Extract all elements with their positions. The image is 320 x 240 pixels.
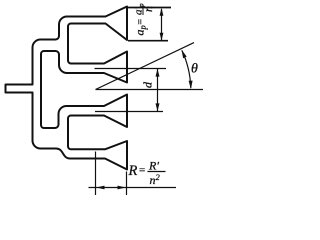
svg-text:=: = [139,165,145,177]
svg-text:n: n [141,6,155,12]
wire R dimension extension line left [95,152,97,196]
wire a_p dimension extension lines [128,7,171,9]
svg-text:θ: θ [191,62,198,77]
wire axis line of horn A3 [95,111,163,113]
node d label (rotated) [141,81,155,88]
wire d dimension arrow line [157,69,159,111]
wire array axis baseline for angle theta [96,89,204,91]
svg-text:ap=: ap= [133,19,148,36]
wire theta angle arc [182,50,191,88]
wire R dimension line [89,187,177,189]
svg-text:R′: R′ [148,159,159,173]
wire inclined beam line [96,43,195,90]
svg-text:R: R [128,163,138,179]
wire R dimension extension line right [126,172,128,196]
svg-text:n2: n2 [150,172,161,187]
svg-text:d: d [141,81,155,88]
node label a_p = a'_p / n (rotated) [133,3,156,35]
wire a_p dimension arrow line [161,9,163,40]
waveguide corporate feed network with input port, two T-splitters and horns A1-A4 (single closed outline) [6,7,128,170]
wire axis line of horn A2 [95,68,167,70]
